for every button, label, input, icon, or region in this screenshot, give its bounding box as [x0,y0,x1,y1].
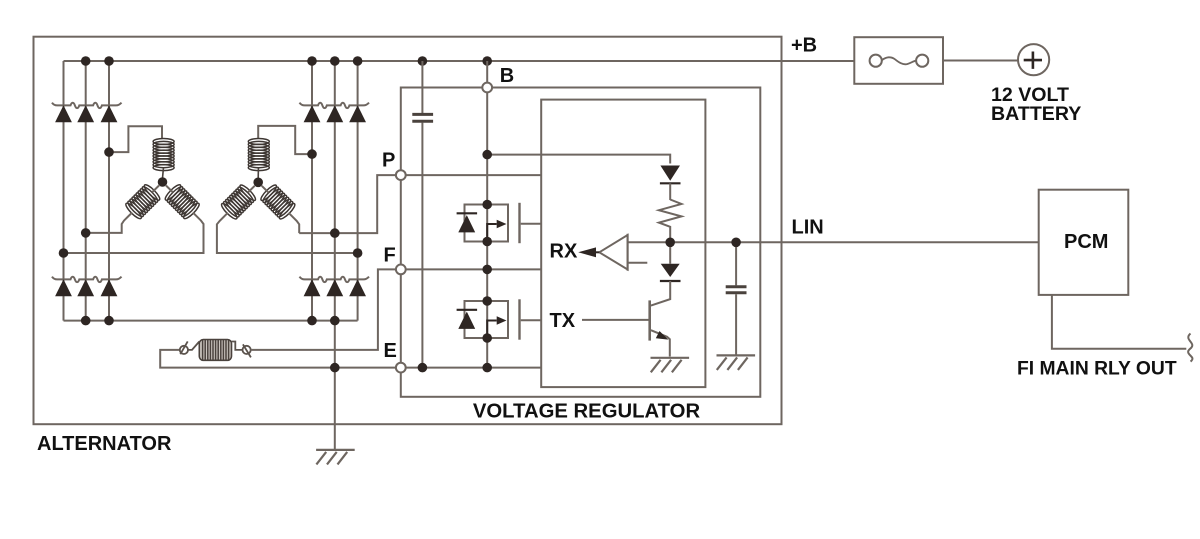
wire: rectifier phase line 2 left [85,61,87,321]
junction: bus / phase 2 right [330,56,340,66]
svg-text:RX: RX [550,241,578,263]
junction: right left-coil tap [353,248,363,258]
wire: right star to right coil lead P tap [262,175,396,233]
voltage regulator box [401,88,761,397]
diode D2 [77,105,94,122]
diode D4 [304,105,321,122]
junction: LIN / capacitor C2 [731,238,741,248]
diode D12 [349,279,366,296]
junction: F line / MOSFET node [482,265,492,275]
wire: left stator top phase tap [109,126,162,152]
diode trio bottom-right cathode bar [300,277,370,283]
diode D3 [101,105,118,122]
PCM box [1039,190,1129,295]
rotor field winding assembly [160,269,396,367]
diode D7 [55,279,72,296]
wire: +B bus from rectifier to fuse [64,60,855,62]
wire: B line down through regulator [486,61,488,368]
wire: left star to right coil lead [64,186,204,254]
terminal E [396,363,406,373]
junction: bus / capacitor line [418,56,428,66]
svg-text:PCM: PCM [1064,231,1108,253]
stator coil L-right [163,183,201,221]
wire: P line into IC [406,174,542,176]
node: right star point [253,178,263,188]
junction: E rail / capacitor line [418,363,428,373]
stator coil R-left [220,183,258,221]
wire: right stator top phase tap [258,126,312,154]
terminal F [396,265,406,275]
junction: left coil tap [81,228,91,238]
ground: transistor emitter [651,358,690,373]
svg-text:P: P [382,150,395,172]
wire: left star to left coil lead [86,186,159,233]
wire: F line into IC [406,268,542,270]
resistor R1 [659,200,682,243]
diode D10 [304,279,321,296]
MOSFET Q1 [457,200,542,247]
battery B+ [1018,44,1049,75]
junction: rail / phase 1 right [307,316,317,326]
rotor coil [199,340,231,361]
ground: alternator case [316,450,355,465]
wire: TX line [582,319,649,321]
MOSFET Q2 [457,296,542,343]
brush right [243,346,251,354]
junction dot: ground rail to E rail [330,363,340,373]
wire: smoothing capacitor line [421,61,423,368]
wire: coil to right star node [257,169,259,179]
junction: rail / ground drop [330,316,340,326]
svg-text:E: E [384,340,397,362]
junction: right top coil tap [307,149,317,159]
transistor Q3 [651,281,670,306]
diode D8 [77,279,94,296]
capacitor C2 [735,247,737,355]
wire: FI MAIN RLY OUT [1052,295,1186,349]
wire: brush to rotor coil [188,342,199,350]
terminal B [482,83,492,93]
stator coil L-left [124,183,162,221]
wire: diode to resistor [669,183,671,200]
junction: left right-coil tap [59,248,69,258]
junction: bus / phase 3 left [104,56,114,66]
junction: left top coil tap [104,147,114,157]
wire: right star to left coil lead [217,186,358,253]
wire: coil to star node [162,169,165,179]
brush left [180,346,188,354]
svg-text:TX: TX [550,310,576,332]
RX arrow [594,251,599,253]
wire: rotor left lead to E rail [160,350,396,368]
wire: rectifier phase line 3 left [108,61,110,321]
wire: B branch to IC diode chain [487,155,670,164]
diode D5 [326,105,343,122]
node: left star point [158,177,168,187]
junction: bus / phase 1 right [307,56,317,66]
diode D9 [101,279,118,296]
wire: rectifier ground rail [64,320,358,322]
wire: fuse to battery [943,60,1018,62]
break squiggle [1188,334,1192,362]
wire: comparator lower stub [628,262,648,264]
svg-text:B: B [500,65,514,87]
svg-text:+B: +B [791,35,817,57]
stator coil R-right [259,183,297,221]
junction: bus / phase 2 left [81,56,91,66]
junction: rail / phase 2 left [81,316,91,326]
wire: right brush to F terminal [251,269,396,350]
junction: B line / IC branch [482,150,492,160]
comparator U1 [599,235,627,270]
svg-text:FI MAIN RLY OUT: FI MAIN RLY OUT [1017,359,1177,380]
diode trio top-left cathode bar [52,103,122,109]
diode trio bottom-left cathode bar [52,277,122,283]
svg-text:VOLTAGE REGULATOR: VOLTAGE REGULATOR [473,400,701,422]
fuse F1 [854,37,943,84]
wire: rectifier phase line 3 right [357,61,359,321]
svg-text:ALTERNATOR: ALTERNATOR [37,433,172,455]
junction: right coil / P tap [330,228,340,238]
diode D6 [349,105,366,122]
diode trio top-right cathode bar [300,103,370,109]
wire: rectifier phase line 1 right [311,61,313,321]
ground: capacitor [717,355,756,370]
capacitor C1 [412,114,433,121]
wire: rectifier phase line 1 left [63,61,65,321]
stator coil L-top [153,139,174,171]
svg-text:BATTERY: BATTERY [991,103,1081,125]
junction: E rail / B line [482,363,492,373]
stator coil R-top [248,139,269,171]
regulator IC box [541,100,705,388]
junction: bus / B line [482,56,492,66]
terminal P [396,170,406,180]
junction: bus / phase 3 right [353,56,363,66]
wire: LIN line [628,241,1039,243]
wire: rotor coil to right brush [232,342,243,350]
diode D13 in IC [660,166,680,181]
junction: LIN / resistor chain [665,238,675,248]
svg-text:F: F [384,245,396,267]
wire: rectifier phase line 2 right / ground drop [334,61,336,450]
wire: E rail into IC [406,367,542,369]
diode D11 [326,279,343,296]
alternator outer box [34,37,782,425]
junction: rail / phase 3 left [104,316,114,326]
diode D14 in IC [669,247,671,264]
diode D1 [55,105,72,122]
svg-text:LIN: LIN [792,216,824,238]
